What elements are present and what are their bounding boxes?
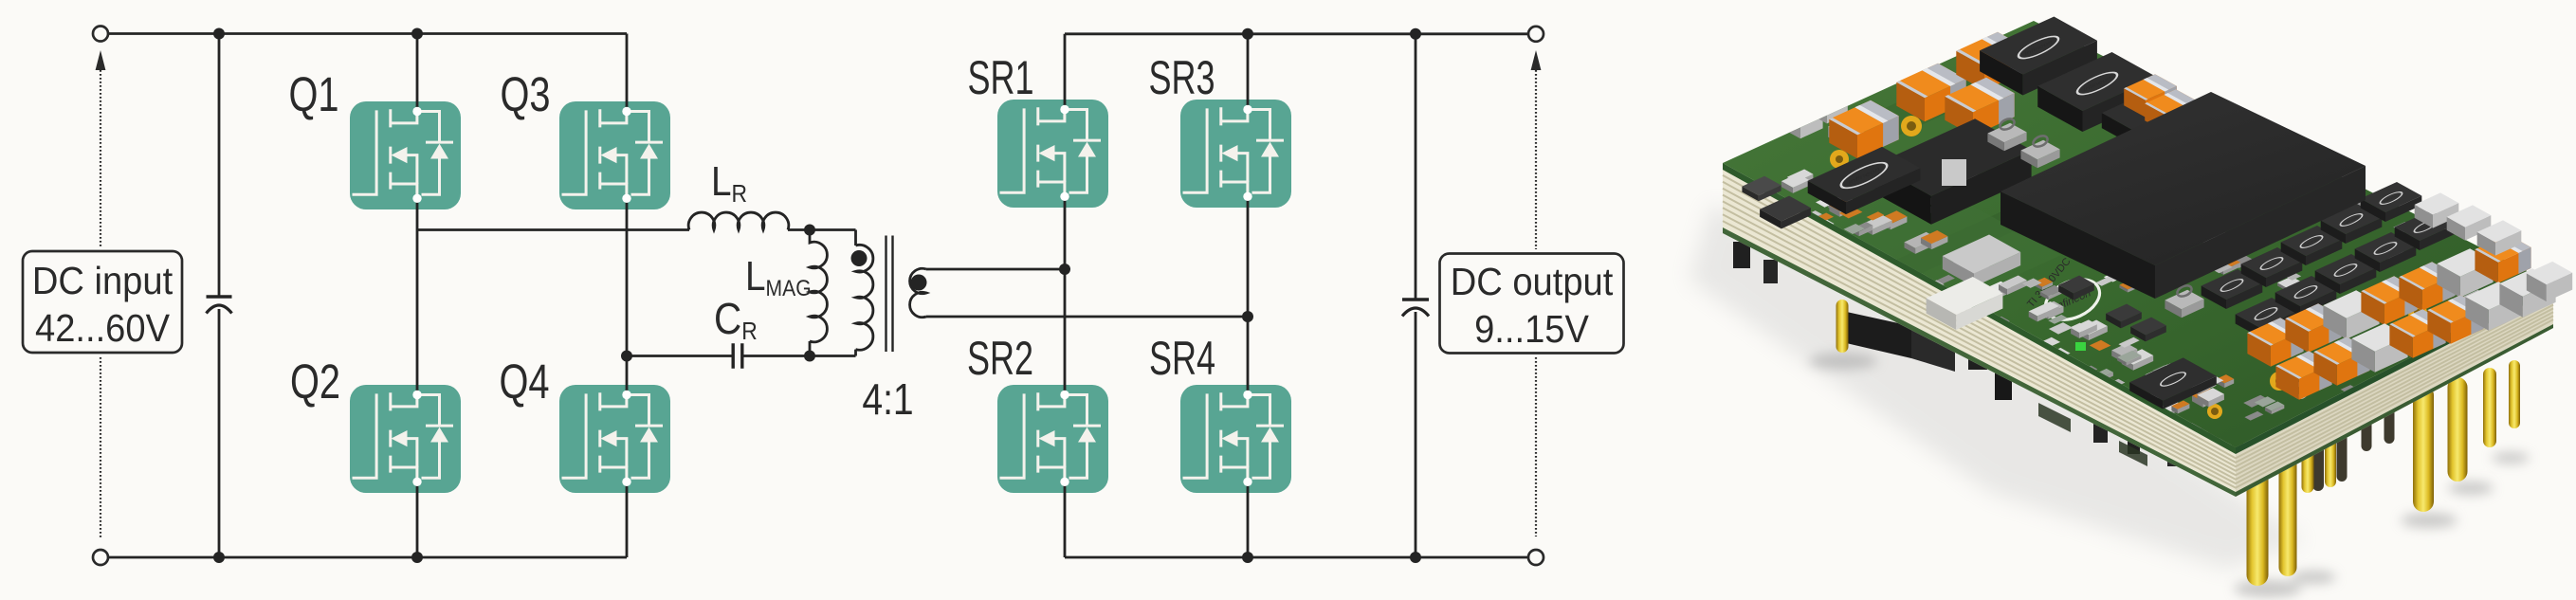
wire output capacitor branch xyxy=(1415,34,1417,557)
junction secondary top / SR leg xyxy=(1059,264,1070,275)
pin stubs under left edge xyxy=(1733,242,1750,268)
QFN controller chip xyxy=(2129,382,2163,409)
junction node B / CR xyxy=(621,351,632,362)
SR3 source terminal pin xyxy=(1243,192,1251,201)
junction LR/LMAG xyxy=(804,225,815,236)
laminate stripes xyxy=(1723,175,2553,488)
svg-text:9...15V: 9...15V xyxy=(1474,308,1589,352)
wire SR1-SR2 leg midpoint xyxy=(1064,196,1067,394)
SR1 drain terminal pin xyxy=(1060,105,1069,114)
dotted output voltage arrow xyxy=(1535,70,1537,536)
wire LR to transformer primary top xyxy=(788,230,856,246)
junction SR4 bottom rail xyxy=(1242,552,1253,563)
transformer primary polarity dot xyxy=(851,250,868,266)
front edge capacitor rows xyxy=(2247,333,2271,367)
SR1 source terminal pin xyxy=(1060,192,1069,201)
svg-text:4:1: 4:1 xyxy=(862,375,913,425)
node: input+ terminal xyxy=(93,27,108,42)
small passives xyxy=(1787,177,1796,188)
inductor LMAG winding xyxy=(810,230,827,356)
inductor LR winding xyxy=(688,212,789,229)
flat transformer with logo xyxy=(1808,181,1846,214)
caps behind right rows xyxy=(2415,205,2433,228)
SR2 source terminal pin xyxy=(1060,478,1069,486)
green LED xyxy=(2075,342,2086,351)
transistor Q2 MOSFET body xyxy=(350,385,461,493)
Q3 drain terminal pin xyxy=(622,107,630,116)
label SR1 xyxy=(967,52,1033,104)
board edge green strips xyxy=(1723,163,2236,454)
junction Q2 bottom xyxy=(411,552,423,563)
SO8 mosfet rows xyxy=(2201,286,2226,310)
output capacitor symbol xyxy=(1402,298,1429,301)
wire top rail (input side) xyxy=(100,32,627,35)
PCB laminated edge (left side) xyxy=(1723,163,2236,497)
PCB module 3D render (stylised) xyxy=(1690,0,2572,597)
label LMAG xyxy=(745,252,812,301)
wire node B to resonant capacitor xyxy=(627,355,733,357)
svg-text:SR4: SR4 xyxy=(1149,333,1215,385)
junction SR3 top rail xyxy=(1242,28,1253,40)
transformer secondary polarity dot xyxy=(911,275,927,291)
gray SOIC chip xyxy=(1943,256,1974,287)
wire SR2 source to bottom rail xyxy=(1064,482,1067,557)
label SR3 xyxy=(1148,52,1215,104)
junction output cap bottom xyxy=(1410,552,1421,563)
wire SR1 drain feed xyxy=(1064,34,1067,110)
capacitor CR plates xyxy=(733,343,742,369)
wire secondary top lead to SR1-SR2 midpoint xyxy=(926,268,1065,271)
svg-text:42...60V: 42...60V xyxy=(35,307,171,351)
mid transformer cube xyxy=(1874,165,1931,225)
PCB laminated edge (right side) xyxy=(2236,284,2553,497)
label SR2 xyxy=(967,333,1033,385)
PCB top face xyxy=(1723,21,2553,447)
node: output- terminal xyxy=(1528,550,1544,565)
infineon silkscreen logo xyxy=(2039,271,2106,327)
node: input- terminal xyxy=(93,550,108,565)
svg-text:Q2: Q2 xyxy=(290,355,340,409)
small caps on back-left edge xyxy=(1783,118,1800,139)
SR2 drain terminal pin xyxy=(1060,391,1069,399)
transistor SR2 MOSFET body xyxy=(997,385,1108,493)
wire bottom rail (input side) xyxy=(100,556,627,559)
junction CR/LMAG xyxy=(804,351,815,362)
Q2 source terminal pin xyxy=(412,478,421,486)
junction input cap bottom xyxy=(213,552,225,563)
bottom-side parts in shadow xyxy=(2038,403,2071,432)
black magnetics cubes on back edge xyxy=(1980,50,2023,95)
wire bottom rail (output side) xyxy=(1065,556,1536,559)
svg-text:SR3: SR3 xyxy=(1148,52,1215,104)
label turns ratio 4:1 xyxy=(862,375,913,425)
Q4 drain terminal pin xyxy=(622,391,630,399)
label Q2 xyxy=(290,355,340,409)
wire Q3 drain feed xyxy=(626,34,629,112)
corner tip caps xyxy=(2527,273,2547,301)
svg-text:DC output: DC output xyxy=(1451,261,1614,304)
svg-text:DC input: DC input xyxy=(32,260,173,303)
SR4 source terminal pin xyxy=(1243,478,1251,486)
wire Q4 source to bottom rail xyxy=(626,482,629,557)
wire SR3-SR4 leg midpoint xyxy=(1247,196,1250,394)
wire CR to transformer primary bottom xyxy=(742,350,856,356)
wire input capacitor branch xyxy=(218,34,221,558)
transistor Q3 MOSFET body xyxy=(559,101,670,209)
big black IC xyxy=(2001,191,2155,299)
dotted input voltage arrow xyxy=(100,70,101,538)
gold test pads xyxy=(1901,116,1922,136)
label Q1 xyxy=(288,67,338,121)
Q2 drain terminal pin xyxy=(412,391,421,399)
small black chips near left corner xyxy=(1760,209,1781,229)
small SOT transistors xyxy=(2106,314,2121,329)
transistor Q4 MOSFET body xyxy=(559,385,670,493)
junction output cap top xyxy=(1410,28,1421,40)
wire Q3-Q4 leg midpoint (node B) xyxy=(626,198,629,394)
label CR xyxy=(714,296,758,346)
label Q4 xyxy=(499,355,549,409)
connector blocks under board xyxy=(1842,311,1911,358)
floor shadow under module xyxy=(1690,204,2304,569)
DC input box xyxy=(23,251,182,353)
white rectangular part xyxy=(1927,299,1957,331)
wire Q1 drain feed xyxy=(416,34,419,112)
wire node A to resonant inductor xyxy=(417,228,689,231)
label LR xyxy=(711,157,747,209)
Q1 drain terminal pin xyxy=(412,107,421,116)
junction Q1 top xyxy=(411,28,423,40)
node: output+ terminal xyxy=(1528,27,1544,42)
transformer secondary winding xyxy=(910,268,926,317)
wire SR4 source to bottom rail xyxy=(1247,482,1250,557)
svg-text:Q4: Q4 xyxy=(499,355,549,409)
corner orange caps xyxy=(2124,88,2146,118)
metal button parts xyxy=(1987,134,2004,152)
Q4 source terminal pin xyxy=(622,478,630,486)
pin shadows on floor xyxy=(1809,353,2530,597)
wire secondary bottom lead to SR3-SR4 midpoint xyxy=(926,316,1248,318)
label SR4 xyxy=(1149,333,1215,385)
transistor Q1 MOSFET body xyxy=(350,101,461,209)
svg-text:SR2: SR2 xyxy=(967,333,1033,385)
transformer primary winding xyxy=(856,245,873,350)
Q1 source terminal pin xyxy=(412,194,421,203)
svg-text:Q1: Q1 xyxy=(288,67,338,121)
wire Q1-Q2 leg midpoint (node A) xyxy=(416,198,419,394)
DC output box xyxy=(1440,254,1624,354)
wire Q2 source to bottom rail xyxy=(416,482,419,557)
wire SR3 drain feed xyxy=(1247,34,1250,110)
SR3 drain terminal pin xyxy=(1243,105,1251,114)
transistor SR3 MOSFET body xyxy=(1180,100,1291,208)
Q3 source terminal pin xyxy=(622,194,630,203)
yellow module pins xyxy=(1836,300,1849,353)
wire top rail (output side) xyxy=(1065,32,1536,35)
input capacitor symbol xyxy=(207,295,232,299)
junction secondary bottom / SR leg xyxy=(1242,311,1253,322)
transformer core xyxy=(886,236,893,353)
svg-text:Q3: Q3 xyxy=(500,67,550,121)
svg-text:SR1: SR1 xyxy=(967,52,1033,104)
label Q3 xyxy=(500,67,550,121)
transistor SR1 MOSFET body xyxy=(997,100,1108,208)
transistor SR4 MOSFET body xyxy=(1180,385,1291,493)
upper-left capacitor cluster xyxy=(1829,119,1857,159)
junction input cap top xyxy=(213,28,225,40)
SR4 drain terminal pin xyxy=(1243,391,1251,399)
